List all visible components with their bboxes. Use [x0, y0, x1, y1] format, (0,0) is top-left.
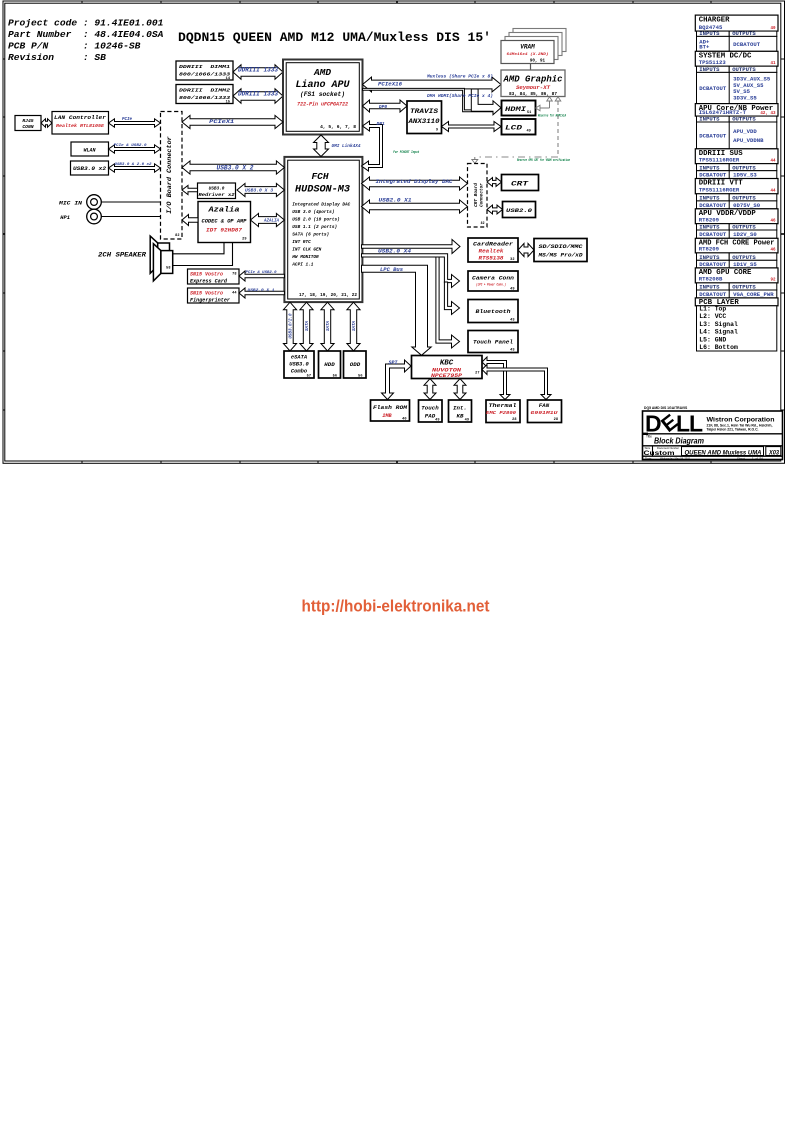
svg-text:DDRIII DIMM1: DDRIII DIMM1 — [179, 64, 230, 70]
svg-text:L: L — [676, 411, 690, 437]
svg-text:USB2.0: USB2.0 — [506, 207, 533, 214]
svg-text:LCD: LCD — [505, 125, 522, 132]
svg-text:DDRIII DIMM2: DDRIII DIMM2 — [179, 88, 230, 94]
svg-text:49: 49 — [465, 419, 469, 423]
svg-text:SATA: SATA — [327, 320, 331, 331]
svg-text:40: 40 — [402, 418, 406, 422]
svg-text:Touch Panel: Touch Panel — [473, 339, 514, 346]
svg-text:40: 40 — [770, 27, 776, 31]
svg-text:DCBATOUT: DCBATOUT — [699, 232, 727, 238]
svg-text:KB: KB — [457, 412, 464, 419]
svg-text:722-Pin uFCPGA722: 722-Pin uFCPGA722 — [297, 101, 348, 107]
svg-text:DCBATOUT: DCBATOUT — [733, 42, 761, 48]
svg-text:DP0: DP0 — [379, 104, 388, 110]
svg-text:SN15 Vostro: SN15 Vostro — [190, 291, 223, 297]
svg-text:Wistron Corporation: Wistron Corporation — [707, 417, 775, 424]
svg-text:RT8209: RT8209 — [699, 218, 719, 224]
svg-text:DDRIII 1333: DDRIII 1333 — [238, 66, 278, 73]
svg-text:DMA HDMI(Share PCIe x 4): DMA HDMI(Share PCIe x 4) — [427, 93, 493, 99]
svg-text:PAD: PAD — [425, 412, 436, 419]
svg-text:DQDN15 QUEEN AMD M12 UMA/Muxle: DQDN15 QUEEN AMD M12 UMA/Muxless DIS 15' — [178, 30, 491, 45]
svg-text:5V_AUX_S5: 5V_AUX_S5 — [733, 83, 763, 89]
svg-text:LPC Bus: LPC Bus — [380, 267, 403, 273]
svg-text:Integrated Display DAC: Integrated Display DAC — [376, 178, 454, 185]
svg-text:INT RTC: INT RTC — [292, 240, 311, 245]
svg-text:3D3V_S5: 3D3V_S5 — [733, 95, 757, 101]
svg-text:27: 27 — [475, 372, 479, 376]
svg-text:PCB P/N : 10246-SB: PCB P/N : 10246-SB — [8, 41, 141, 52]
svg-text:CONN: CONN — [22, 124, 33, 130]
svg-text:RTS5138: RTS5138 — [479, 255, 504, 261]
svg-text:SD/SDIO/MMC: SD/SDIO/MMC — [539, 243, 584, 250]
svg-text:44: 44 — [770, 160, 776, 164]
svg-text:AMD: AMD — [313, 67, 331, 78]
svg-text:USB3.0 & 2.0 x2: USB3.0 & 2.0 x2 — [115, 163, 153, 167]
svg-text:83, 84, 85, 86, 87: 83, 84, 85, 86, 87 — [509, 93, 558, 97]
svg-text:4, 5, 6, 7, 8: 4, 5, 6, 7, 8 — [320, 124, 356, 130]
svg-text:APU_VDDNB: APU_VDDNB — [733, 138, 764, 144]
svg-text:15: 15 — [226, 101, 230, 105]
svg-text:USB 1.1 (2 ports): USB 1.1 (2 ports) — [292, 225, 337, 230]
svg-text:Realtek RTL8105E: Realtek RTL8105E — [56, 123, 104, 129]
svg-text:43: 43 — [510, 349, 514, 353]
svg-text:I/O Board Connector: I/O Board Connector — [166, 136, 174, 214]
svg-text:1 of 94: 1 of 94 — [752, 456, 763, 460]
svg-text:1D5V_S3: 1D5V_S3 — [733, 173, 757, 179]
svg-text:41: 41 — [770, 62, 776, 66]
svg-text:46: 46 — [770, 220, 776, 224]
svg-text:0D75V_S0: 0D75V_S0 — [733, 203, 760, 209]
svg-text:DCBATOUT: DCBATOUT — [699, 292, 727, 298]
svg-text:L: L — [689, 411, 703, 437]
svg-text:58: 58 — [166, 267, 170, 271]
svg-text:USB3.0: USB3.0 — [289, 362, 309, 368]
svg-text:DCBATOUT: DCBATOUT — [699, 86, 727, 92]
svg-text:Azalia: Azalia — [207, 207, 239, 215]
svg-text:Flash ROM: Flash ROM — [373, 404, 408, 411]
svg-text:DDRIII VTT: DDRIII VTT — [699, 180, 743, 188]
svg-text:28: 28 — [554, 418, 558, 422]
svg-text:17, 18, 19, 20, 21, 22: 17, 18, 19, 20, 21, 22 — [299, 293, 357, 298]
svg-text:USB3.0: USB3.0 — [209, 187, 225, 192]
svg-text:USB3.0 x2: USB3.0 x2 — [73, 166, 106, 172]
svg-text:HUDSON-M3: HUDSON-M3 — [295, 185, 350, 196]
svg-text:43: 43 — [510, 319, 514, 323]
svg-text:49: 49 — [510, 287, 514, 291]
svg-text:49: 49 — [527, 130, 531, 134]
svg-text:LAN Controller: LAN Controller — [54, 115, 107, 121]
svg-text:Part Number : 48.4IE04.0SA: Part Number : 48.4IE04.0SA — [8, 29, 164, 40]
svg-text:46: 46 — [770, 249, 776, 253]
svg-text:RJ45: RJ45 — [22, 118, 33, 124]
svg-text:http://hobi-elektronika.net: http://hobi-elektronika.net — [302, 598, 490, 616]
svg-text:Camera Conn: Camera Conn — [472, 274, 515, 281]
svg-text:L6: Bottom: L6: Bottom — [699, 344, 738, 351]
svg-text:TPS51123: TPS51123 — [699, 60, 726, 66]
svg-text:For FCHCRT Input: For FCHCRT Input — [393, 150, 419, 155]
svg-text:800/1066/1333: 800/1066/1333 — [179, 72, 230, 78]
svg-text:INT CLK GEN: INT CLK GEN — [292, 248, 321, 253]
svg-text:USB 2.0 (10 ports): USB 2.0 (10 ports) — [292, 218, 339, 223]
svg-text:Fingerprinter: Fingerprinter — [190, 297, 230, 303]
svg-text:Integrated Display DAC: Integrated Display DAC — [292, 203, 350, 208]
svg-text:Connector: Connector — [480, 183, 485, 207]
svg-text:3D3V_AUX_S5: 3D3V_AUX_S5 — [733, 77, 770, 83]
svg-text:29: 29 — [242, 238, 246, 242]
svg-text:HDD: HDD — [324, 361, 335, 368]
svg-text:Combo: Combo — [291, 369, 308, 375]
svg-text:USB2.0 X1: USB2.0 X1 — [379, 197, 412, 204]
svg-text:AZALIA: AZALIA — [263, 218, 279, 223]
svg-text:DP1: DP1 — [377, 121, 386, 127]
svg-text:Bluetooth: Bluetooth — [476, 308, 512, 315]
svg-text:SATA (6 ports): SATA (6 ports) — [292, 233, 329, 238]
svg-text:44: 44 — [770, 190, 776, 194]
svg-text:Muxless (Share PCIe x 8): Muxless (Share PCIe x 8) — [426, 74, 493, 80]
svg-text:Date:: Date: — [645, 456, 652, 460]
svg-text:(FS1 socket): (FS1 socket) — [300, 91, 345, 98]
svg-text:HP1: HP1 — [60, 215, 70, 221]
svg-text:HDMI: HDMI — [505, 106, 526, 113]
svg-text:USB3.0 X 3: USB3.0 X 3 — [245, 187, 273, 193]
svg-text:USB 3.0 (4ports): USB 3.0 (4ports) — [292, 210, 334, 215]
svg-text:TPS51116RGER: TPS51116RGER — [699, 188, 740, 194]
svg-text:USB2.0 X 1: USB2.0 X 1 — [248, 289, 276, 293]
svg-text:WLAN: WLAN — [83, 148, 96, 154]
svg-text:TRAVIS: TRAVIS — [410, 108, 438, 115]
svg-text:ANX3110: ANX3110 — [407, 118, 439, 125]
svg-text:Reserve for HDMIx1A: Reserve for HDMIx1A — [538, 113, 566, 118]
svg-text:AMD Graphic: AMD Graphic — [502, 74, 562, 84]
svg-text:Wednesday, May 04, 2011: Wednesday, May 04, 2011 — [660, 456, 690, 460]
svg-text:90, 91: 90, 91 — [530, 59, 546, 63]
svg-text:VGA_CORE_PWR: VGA_CORE_PWR — [733, 292, 774, 298]
svg-text:EMC P2800: EMC P2800 — [486, 410, 516, 416]
svg-text:BT+: BT+ — [699, 44, 709, 50]
svg-text:HW MONITOR: HW MONITOR — [292, 255, 319, 260]
svg-text:DDRIII 1333: DDRIII 1333 — [238, 90, 278, 97]
svg-text:Realtek: Realtek — [479, 248, 505, 254]
svg-text:92: 92 — [770, 279, 776, 283]
svg-text:PCIe & USB2.0: PCIe & USB2.0 — [114, 144, 148, 148]
svg-text:PCIe: PCIe — [122, 118, 133, 122]
svg-text:1D1V_S5: 1D1V_S5 — [733, 262, 757, 268]
svg-text:82: 82 — [175, 234, 179, 238]
svg-text:ODD: ODD — [350, 361, 361, 368]
svg-text:PCIeX1: PCIeX1 — [209, 119, 234, 125]
svg-text:Revision : SB: Revision : SB — [8, 52, 106, 63]
svg-text:DCBATOUT: DCBATOUT — [699, 173, 727, 179]
svg-text:9: 9 — [436, 129, 438, 133]
svg-text:CRT Board: CRT Board — [474, 183, 479, 207]
svg-text:PCIe & USB2.0: PCIe & USB2.0 — [246, 271, 278, 275]
svg-text:G991M1U: G991M1U — [531, 410, 558, 416]
svg-text:L4: Signal: L4: Signal — [699, 329, 738, 336]
svg-text:Touch: Touch — [421, 404, 439, 411]
svg-text:L5: GND: L5: GND — [699, 336, 726, 343]
svg-text:UMI Link4X4: UMI Link4X4 — [332, 143, 361, 149]
svg-text:eSATA: eSATA — [291, 355, 307, 361]
svg-text:51: 51 — [527, 111, 531, 115]
svg-text:CRT: CRT — [511, 181, 528, 188]
svg-text:SATA: SATA — [306, 320, 310, 331]
svg-text:TPS51116RGER: TPS51116RGER — [699, 158, 740, 164]
svg-text:2CH SPEAKER: 2CH SPEAKER — [98, 252, 146, 259]
svg-text:L1: Top: L1: Top — [699, 306, 726, 313]
svg-text:APU_VDD: APU_VDD — [733, 129, 757, 135]
svg-text:USB3.0/2.0: USB3.0/2.0 — [289, 313, 294, 339]
svg-text:Redriver x2: Redriver x2 — [199, 193, 235, 198]
svg-text:DCBATOUT: DCBATOUT — [699, 133, 727, 139]
svg-text:QUEEN AMD Muxless UMA: QUEEN AMD Muxless UMA — [685, 449, 762, 456]
svg-text:Project code : 91.4IE01.001: Project code : 91.4IE01.001 — [8, 18, 164, 29]
svg-text:SN15 Vostro: SN15 Vostro — [190, 272, 223, 278]
svg-text:32: 32 — [510, 258, 514, 262]
svg-text:SATA: SATA — [353, 320, 357, 331]
svg-text:SPI: SPI — [389, 360, 398, 366]
svg-text:78: 78 — [232, 272, 236, 276]
svg-text:CardReader: CardReader — [473, 240, 514, 247]
svg-text:42, 43: 42, 43 — [760, 112, 776, 116]
svg-text:USB3.0 X 2: USB3.0 X 2 — [217, 165, 254, 172]
svg-text:Express Card: Express Card — [190, 278, 228, 284]
svg-text:CHARGER: CHARGER — [699, 16, 730, 24]
svg-text:DQ5 AMD DIS 1GA/TRAVIS: DQ5 AMD DIS 1GA/TRAVIS — [644, 406, 688, 410]
svg-text:Taipei Hsien 221, Taiwan, R.O.: Taipei Hsien 221, Taiwan, R.O.C. — [707, 428, 759, 432]
svg-text:Thermal: Thermal — [489, 402, 518, 409]
svg-text:2MB: 2MB — [382, 413, 392, 419]
svg-text:FAN: FAN — [539, 402, 550, 409]
svg-text:RT8209: RT8209 — [699, 247, 719, 253]
svg-text:RT8208B: RT8208B — [699, 277, 723, 283]
svg-text:IDT 92HD87: IDT 92HD87 — [206, 228, 243, 234]
svg-text:PCIeX16: PCIeX16 — [378, 81, 403, 88]
svg-text:NPCE795P: NPCE795P — [431, 372, 463, 379]
svg-text:CODEC & OP AMP: CODEC & OP AMP — [202, 219, 248, 225]
svg-text:(LPC + Power Conn.): (LPC + Power Conn.) — [476, 282, 506, 286]
svg-text:Reserve GPU CRT for VRAM verif: Reserve GPU CRT for VRAM verification — [517, 158, 570, 162]
svg-text:49: 49 — [435, 419, 439, 423]
svg-text:64Mx16x4 (X.2ND): 64Mx16x4 (X.2ND) — [507, 52, 549, 57]
svg-text:Int.: Int. — [453, 404, 467, 411]
svg-text:VRAM: VRAM — [520, 43, 535, 50]
svg-text:FCH: FCH — [311, 171, 328, 182]
svg-text:800/1066/1333: 800/1066/1333 — [179, 95, 230, 101]
svg-text:56: 56 — [358, 374, 362, 378]
svg-text:Liano APU: Liano APU — [296, 79, 351, 91]
svg-text:56: 56 — [333, 374, 337, 378]
svg-text:Seymour-XT: Seymour-XT — [516, 85, 551, 91]
svg-text:Title: Title — [646, 435, 652, 439]
svg-text:DCBATOUT: DCBATOUT — [699, 262, 727, 268]
svg-text:5V_S5: 5V_S5 — [733, 89, 750, 95]
svg-text:57: 57 — [307, 374, 311, 378]
svg-text:Block Diagram: Block Diagram — [654, 436, 704, 446]
svg-text:MS/MS Pro/xD: MS/MS Pro/xD — [537, 251, 583, 258]
svg-text:L2: VCC: L2: VCC — [699, 313, 726, 320]
svg-text:Sheet: Sheet — [737, 456, 745, 460]
svg-text:1D2V_S0: 1D2V_S0 — [733, 232, 757, 238]
svg-text:L3: Signal: L3: Signal — [699, 321, 738, 328]
svg-text:82: 82 — [481, 221, 485, 225]
svg-text:MIC IN: MIC IN — [58, 200, 83, 206]
svg-text:ACPI 1.1: ACPI 1.1 — [291, 263, 313, 268]
svg-text:28: 28 — [512, 418, 516, 422]
svg-text:DCBATOUT: DCBATOUT — [699, 203, 727, 209]
